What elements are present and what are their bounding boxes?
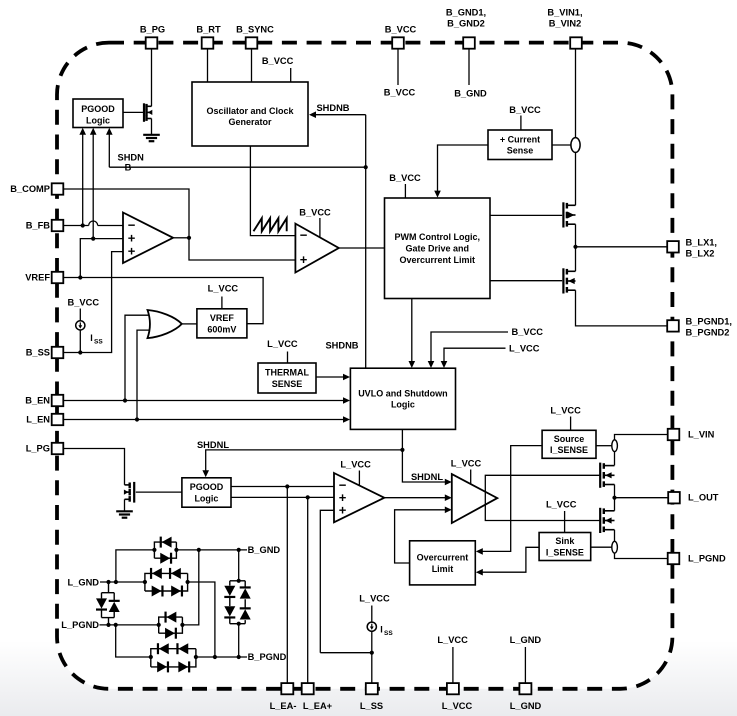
wire LDO error amp output to driver bbox=[384, 494, 452, 501]
wire L_GND net bbox=[100, 581, 145, 583]
ground (under Q1) bbox=[143, 119, 160, 142]
wire PGOOD to Q1 gate bbox=[123, 111, 143, 113]
svg-text:600mV: 600mV bbox=[207, 324, 236, 334]
block THERMAL SENSE bbox=[258, 363, 316, 393]
wire VREF sense into PGOOD bbox=[90, 128, 97, 241]
node pair D4 right bbox=[180, 623, 184, 627]
pin B_RT bbox=[196, 25, 221, 49]
svg-text:B_LX1,: B_LX1, bbox=[686, 237, 718, 247]
wire overcurrent to driver input bbox=[395, 507, 452, 564]
label L_VCC (sink sense supply) bbox=[546, 500, 577, 533]
label L_VCC (VREF supply) bbox=[208, 284, 239, 309]
node B_LX bbox=[573, 245, 577, 249]
wire Q6 source to sink ellipse bbox=[614, 530, 616, 542]
node pair D2 right bbox=[186, 580, 190, 584]
block Source I_SENSE bbox=[542, 430, 596, 458]
node B_PGND / pair D5 branch bbox=[237, 655, 241, 659]
current source ISS (buck) bbox=[76, 321, 85, 330]
label L_GND bbox=[67, 577, 99, 587]
block UVLO and Shutdown Logic bbox=[350, 368, 455, 429]
node L_GND / pair D3 branch bbox=[106, 580, 110, 584]
node pair D2 left bbox=[143, 580, 147, 584]
svg-text:−: − bbox=[300, 228, 308, 243]
svg-text:B_VCC: B_VCC bbox=[512, 327, 544, 337]
pin L_EN bbox=[26, 414, 63, 425]
transistor Q2 (buck high-side NMOS) bbox=[563, 202, 575, 227]
label L_VCC (thermal sense supply) bbox=[267, 339, 298, 363]
svg-text:L_PGND: L_PGND bbox=[61, 620, 99, 630]
pin B_SS bbox=[26, 347, 64, 358]
pin B_COMP bbox=[10, 183, 63, 194]
pin B_PGND1 B_PGND2 bbox=[667, 316, 732, 337]
wire SHDNB vertical to UVLO bbox=[365, 115, 367, 369]
wire B_EN to UVLO bbox=[63, 397, 350, 404]
svg-text:L_VCC: L_VCC bbox=[340, 460, 371, 470]
wire B_SS to error amp soft-start input bbox=[63, 252, 123, 355]
wire to L_PGND pin bbox=[615, 553, 668, 558]
node pair D1 left bbox=[152, 548, 156, 552]
label L_VCC (above ISS LDO) bbox=[359, 594, 390, 604]
wire OR gate to VREF block bbox=[182, 323, 197, 325]
wire VREF to error amp + input bbox=[80, 239, 123, 278]
svg-text:I_SENSE: I_SENSE bbox=[550, 445, 588, 455]
block PWM Control Logic Gate Drive and Overcurrent Limit bbox=[385, 198, 491, 299]
wire Q3 drain to B_LX node bbox=[575, 247, 577, 271]
block PGOOD Logic (LDO) bbox=[182, 478, 231, 507]
wire VREF to VREF 600mV output bbox=[63, 275, 263, 323]
wire PWM to UVLO block bbox=[409, 299, 416, 369]
svg-text:B_VIN2: B_VIN2 bbox=[549, 19, 582, 29]
wire current sense to ellipse bbox=[552, 144, 571, 146]
svg-text:+ Current: + Current bbox=[500, 134, 540, 144]
svg-text:B_GND: B_GND bbox=[248, 545, 281, 555]
svg-text:B_VCC: B_VCC bbox=[262, 56, 294, 66]
svg-text:B_VCC: B_VCC bbox=[299, 207, 331, 217]
svg-text:L_VCC: L_VCC bbox=[550, 405, 581, 415]
svg-text:B_COMP: B_COMP bbox=[10, 184, 50, 194]
pin L_GND (bottom) bbox=[510, 683, 542, 711]
svg-text:Sink: Sink bbox=[555, 536, 575, 546]
wire driver to Q5 gate bbox=[485, 475, 600, 520]
svg-text:B_VCC: B_VCC bbox=[384, 88, 416, 98]
label B_PGND bbox=[248, 652, 287, 662]
block Sink I_SENSE bbox=[539, 533, 591, 561]
svg-text:L_VIN: L_VIN bbox=[688, 430, 715, 440]
svg-text:SHDNB: SHDNB bbox=[325, 341, 358, 351]
svg-text:Source: Source bbox=[554, 434, 585, 444]
IC boundary (dashed package outline) bbox=[57, 43, 672, 689]
pin B_FB bbox=[26, 220, 64, 231]
wire B_VIN rail below ellipse bbox=[575, 152, 577, 205]
svg-text:B_PGND: B_PGND bbox=[248, 652, 287, 662]
wire Q3 source to B_PGND pin bbox=[576, 290, 668, 326]
pin L_VCC (bottom) bbox=[442, 683, 473, 711]
wire SHDN B into PGOOD bbox=[106, 128, 113, 167]
label B_VCC (ISS buck) bbox=[68, 297, 100, 307]
wire L_PGND net bbox=[100, 624, 159, 626]
wire L_PG to Q4 drain bbox=[63, 449, 124, 485]
svg-text:L_EN: L_EN bbox=[26, 415, 50, 425]
svg-text:L_GND: L_GND bbox=[510, 701, 542, 711]
node SHDNB junction bbox=[364, 165, 368, 169]
wire to B_LX pin bbox=[576, 246, 668, 248]
svg-text:Generator: Generator bbox=[228, 117, 272, 127]
wire LDO soft-start input bbox=[320, 510, 334, 652]
label L_VCC (driver supply) bbox=[451, 458, 482, 484]
svg-text:B_PGND2: B_PGND2 bbox=[686, 327, 730, 337]
transistor Q4 (L_PG pull-down NMOS) bbox=[124, 482, 134, 503]
wire B_FB to error amp inverting input bbox=[63, 221, 123, 226]
pin B_EN bbox=[25, 395, 63, 406]
svg-text:Overcurrent Limit: Overcurrent Limit bbox=[399, 255, 475, 265]
svg-text:B_GND: B_GND bbox=[454, 89, 487, 99]
pin VREF bbox=[25, 272, 63, 283]
current source ISS (LDO) bbox=[367, 622, 376, 631]
svg-text:B_VCC: B_VCC bbox=[389, 173, 421, 183]
label B_VCC (current sense supply) bbox=[509, 105, 541, 130]
wire L_EA+ sense bbox=[307, 497, 309, 683]
label SHDNL (at PGOOD LDO) bbox=[197, 440, 229, 450]
label B_GND bbox=[248, 545, 281, 555]
op-amp error amplifier (LDO) bbox=[334, 473, 384, 522]
block PGOOD Logic (buck) bbox=[73, 99, 123, 128]
svg-text:L_VCC: L_VCC bbox=[546, 500, 577, 510]
wire B_PGND net bbox=[196, 656, 247, 658]
svg-text:L_EA-: L_EA- bbox=[270, 701, 297, 711]
diode pair D4 (anti-parallel, L_PGND to B_GND) bbox=[159, 612, 183, 639]
node pair D5 bottom bbox=[237, 622, 241, 626]
pin L_VIN bbox=[668, 429, 715, 440]
wire B_RT to oscillator bbox=[207, 49, 209, 82]
svg-text:B_EN: B_EN bbox=[25, 396, 50, 406]
svg-text:SHDN: SHDN bbox=[118, 153, 145, 163]
svg-text:L_VCC: L_VCC bbox=[437, 635, 468, 645]
wire B_VCC into UVLO bbox=[428, 332, 508, 368]
transistor Q5 (LDO source PMOS) bbox=[600, 463, 614, 488]
svg-text:B_GND1,: B_GND1, bbox=[446, 8, 486, 18]
node pair D1 right bbox=[174, 548, 178, 552]
wire oscillator output to PWM comparator bbox=[250, 146, 295, 236]
node L_GND / pair D1 branch bbox=[114, 580, 118, 584]
op-amp error amplifier (buck) bbox=[123, 213, 173, 264]
node error amp output / B_COMP bbox=[187, 236, 191, 240]
pin L_PG bbox=[26, 443, 64, 454]
node pair D4 left bbox=[157, 623, 161, 627]
label SHDNB (into oscillator) bbox=[316, 103, 349, 113]
svg-text:I: I bbox=[90, 333, 93, 343]
node pair D6 right bbox=[194, 655, 198, 659]
wire PGOOD to LDO error amp inverting input bbox=[231, 484, 334, 488]
transistor Q3 (buck low-side NMOS) bbox=[563, 268, 575, 293]
node L_PGND / pair D6 branch bbox=[114, 623, 118, 627]
OR gate (enable logic) bbox=[148, 310, 182, 338]
diode pair D3 (anti-parallel, L_GND to L_PGND) bbox=[96, 582, 120, 625]
label SHDNL (at driver) bbox=[411, 472, 443, 482]
svg-text:B_FB: B_FB bbox=[26, 221, 51, 231]
wire B_EN to OR gate bbox=[125, 315, 150, 400]
svg-text:PGOOD: PGOOD bbox=[81, 104, 115, 114]
wire pair D2 to B_PGND net bbox=[188, 582, 215, 657]
svg-text:L_VCC: L_VCC bbox=[451, 458, 482, 468]
wire Sink I_SENSE to overcurrent limit bbox=[476, 547, 539, 575]
node L_OUT bbox=[612, 496, 616, 500]
ground (under Q4) bbox=[116, 511, 133, 517]
wire L_VCC pin stub bbox=[437, 635, 468, 683]
wire error amp output bbox=[173, 237, 189, 239]
svg-text:L_PG: L_PG bbox=[26, 444, 50, 454]
svg-text:L_VCC: L_VCC bbox=[267, 339, 298, 349]
wire Q4 gate to PGOOD (LDO) bbox=[136, 491, 182, 493]
op-amp PWM comparator bbox=[295, 224, 338, 273]
pin B_VIN1 B_VIN2 bbox=[547, 8, 582, 49]
wire L_EN to OR gate bbox=[137, 330, 149, 419]
svg-text:I: I bbox=[380, 625, 383, 635]
svg-text:Logic: Logic bbox=[86, 115, 110, 125]
svg-text:L_EA+: L_EA+ bbox=[303, 701, 333, 711]
label L_PGND bbox=[61, 620, 99, 630]
block Overcurrent Limit bbox=[410, 541, 476, 585]
svg-text:L_VCC: L_VCC bbox=[359, 594, 390, 604]
wire Q2 source to B_LX node bbox=[575, 224, 577, 247]
wire pair D1 to L_GND net bbox=[116, 550, 154, 582]
wire L_VCC to ISS (LDO) bbox=[371, 606, 373, 623]
wire Q6 drain to L_OUT node bbox=[614, 498, 616, 511]
node B_GND / pair D5 branch bbox=[237, 548, 241, 552]
label B_VCC (PWM supply) bbox=[389, 173, 421, 198]
wire B_PG to Q1 drain bbox=[151, 49, 153, 107]
wire L_EN to UVLO bbox=[63, 416, 350, 423]
pin L_EA- bbox=[270, 683, 297, 711]
wire B_GND pin stub bbox=[454, 49, 487, 99]
diode pair D2 (series anti-parallel, L_GND to B_PGND) bbox=[145, 568, 188, 597]
wire B_VCC to ISS source bbox=[79, 309, 81, 321]
transistor Q1 (B_PG pull-down NMOS) bbox=[144, 103, 152, 122]
node pair D5 top bbox=[237, 579, 241, 583]
svg-text:L_VCC: L_VCC bbox=[208, 284, 239, 294]
svg-text:Logic: Logic bbox=[391, 400, 415, 410]
current sense element (sink, ellipse) bbox=[612, 541, 618, 553]
svg-text:L_PGND: L_PGND bbox=[688, 554, 726, 564]
block Oscillator and Clock Generator bbox=[192, 82, 308, 146]
svg-text:B_PG: B_PG bbox=[140, 25, 165, 35]
svg-text:SS: SS bbox=[94, 339, 103, 346]
svg-text:I_SENSE: I_SENSE bbox=[546, 547, 584, 557]
wire PGOOD to LDO error amp + input bbox=[231, 495, 334, 499]
svg-text:B_GND2: B_GND2 bbox=[447, 19, 485, 29]
pin L_PGND bbox=[668, 553, 726, 564]
block + Current Sense bbox=[488, 130, 552, 160]
label B_VCC (UVLO input) bbox=[512, 327, 544, 337]
svg-text:B_SS: B_SS bbox=[26, 348, 50, 358]
wire pair D4 to B_GND net bbox=[182, 550, 198, 625]
diode pair D5 (series anti-parallel, B_GND to B_PGND) bbox=[224, 550, 250, 657]
label L_VCC (UVLO input) bbox=[509, 343, 540, 353]
svg-text:B_LX2: B_LX2 bbox=[686, 248, 715, 258]
wire Source I_SENSE to overcurrent limit bbox=[476, 446, 542, 555]
svg-text:UVLO and Shutdown: UVLO and Shutdown bbox=[358, 388, 448, 398]
op-amp driver (LDO) bbox=[452, 474, 498, 523]
wire SHDNB into oscillator bbox=[309, 111, 366, 118]
svg-text:SHDNL: SHDNL bbox=[411, 472, 443, 482]
svg-text:B_SYNC: B_SYNC bbox=[236, 25, 274, 35]
pin L_OUT bbox=[668, 492, 719, 503]
wire SHDNL to PGOOD (LDO) bbox=[202, 450, 402, 477]
label SHDNB (at UVLO) bbox=[325, 341, 358, 351]
wire L_VCC into UVLO bbox=[441, 348, 506, 368]
svg-text:SHDNB: SHDNB bbox=[316, 103, 349, 113]
svg-text:SHDNL: SHDNL bbox=[197, 440, 229, 450]
wire B_FB sense into PGOOD bbox=[79, 128, 86, 228]
svg-text:+: + bbox=[128, 244, 136, 259]
wire B_GND net bbox=[176, 549, 247, 551]
transistor Q6 (LDO sink NMOS) bbox=[600, 508, 614, 533]
label B_VCC (comparator supply) bbox=[299, 207, 331, 237]
wire PWM to Q2 gate bbox=[490, 214, 562, 216]
svg-text:B_VIN1,: B_VIN1, bbox=[547, 8, 582, 18]
svg-text:Limit: Limit bbox=[432, 564, 454, 574]
svg-text:Overcurrent: Overcurrent bbox=[417, 552, 469, 562]
wire comparator output to PWM block bbox=[339, 247, 385, 249]
current sense element (source, ellipse) bbox=[612, 440, 618, 452]
node B_GND / pair D2 branch bbox=[197, 548, 201, 552]
svg-text:THERMAL: THERMAL bbox=[265, 368, 309, 378]
pin L_EA+ bbox=[302, 683, 333, 711]
sawtooth waveform symbol bbox=[254, 218, 287, 231]
svg-text:VREF: VREF bbox=[210, 313, 235, 323]
node L_PGND / pair D3 branch bbox=[106, 623, 110, 627]
svg-text:PWM Control Logic,: PWM Control Logic, bbox=[395, 232, 481, 242]
pin L_SS bbox=[360, 683, 383, 711]
wire to L_OUT pin bbox=[615, 497, 669, 499]
label L_VCC (source sense supply) bbox=[550, 405, 581, 430]
svg-text:L_SS: L_SS bbox=[360, 701, 383, 711]
wire Q4 source to ground bbox=[124, 499, 126, 511]
wire L_EA- sense bbox=[286, 487, 288, 684]
diode pair D1 (anti-parallel, to B_GND) bbox=[154, 537, 176, 564]
wire Q5 source to L_OUT node bbox=[614, 485, 616, 498]
wire B_VIN rail down to current-sense bbox=[575, 49, 577, 138]
wire PWM to Q3 gate bbox=[490, 280, 562, 282]
svg-text:Oscillator and Clock: Oscillator and Clock bbox=[206, 106, 294, 116]
pin B_SYNC bbox=[236, 25, 274, 49]
svg-text:SENSE: SENSE bbox=[272, 379, 303, 389]
wire Source I_SENSE to ellipse bbox=[596, 445, 612, 447]
pin B_VCC (top) bbox=[385, 25, 417, 49]
label SHDN B bbox=[118, 153, 145, 173]
pin B_GND1 B_GND2 bbox=[446, 8, 486, 49]
block VREF 600mV bbox=[197, 309, 247, 338]
svg-text:L_OUT: L_OUT bbox=[688, 493, 719, 503]
wire B_VCC pin stub bbox=[384, 49, 416, 98]
svg-text:L_VCC: L_VCC bbox=[442, 701, 473, 711]
wire B_SYNC to oscillator bbox=[251, 49, 253, 82]
label ISS (LDO) bbox=[380, 625, 393, 638]
svg-text:Gate Drive and: Gate Drive and bbox=[405, 243, 469, 253]
svg-text:+: + bbox=[300, 252, 308, 267]
svg-text:B_RT: B_RT bbox=[196, 25, 221, 35]
label ISS (buck) bbox=[90, 333, 103, 346]
label B_VCC (oscillator supply) bbox=[262, 56, 294, 82]
wire ISS to L_SS pin bbox=[371, 631, 373, 683]
wire Sink I_SENSE to ellipse bbox=[591, 546, 612, 548]
wire L_VIN to Q5 drain bbox=[615, 435, 668, 466]
svg-text:B_VCC: B_VCC bbox=[509, 105, 541, 115]
node L_SS junction bbox=[370, 651, 374, 655]
wire B_COMP to error amp output node bbox=[63, 189, 295, 260]
wire SHDN B net bbox=[109, 166, 365, 168]
pin B_PG bbox=[140, 25, 165, 49]
svg-text:L_VCC: L_VCC bbox=[509, 343, 540, 353]
svg-text:PGOOD: PGOOD bbox=[190, 482, 224, 492]
wire UVLO to SHDNL net bbox=[402, 429, 451, 485]
svg-text:SS: SS bbox=[384, 630, 393, 637]
node B_PGND / pair D2 branch bbox=[213, 655, 217, 659]
svg-text:L_GND: L_GND bbox=[510, 635, 542, 645]
wire L_SS to LDO soft-start bbox=[320, 652, 372, 654]
pin B_LX1 B_LX2 bbox=[667, 237, 717, 258]
svg-text:+: + bbox=[339, 502, 347, 517]
svg-text:VREF: VREF bbox=[25, 273, 50, 283]
wire THERMAL SENSE to UVLO bbox=[316, 374, 350, 381]
node SHDNL junction bbox=[400, 448, 404, 452]
svg-text:Sense: Sense bbox=[507, 146, 534, 156]
wire L_PGND to pair D6 bbox=[116, 625, 151, 657]
svg-text:L_GND: L_GND bbox=[67, 577, 99, 587]
wire L_GND pin stub bbox=[510, 635, 542, 683]
svg-text:B_VCC: B_VCC bbox=[68, 297, 100, 307]
label L_VCC (LDO error amp supply) bbox=[340, 460, 371, 486]
svg-text:B_PGND1,: B_PGND1, bbox=[686, 316, 733, 326]
wire ISS to B_SS bbox=[79, 330, 81, 353]
current sense element (buck, ellipse) bbox=[571, 138, 580, 153]
wire current sense to PWM block bbox=[434, 145, 488, 198]
diode pair D6 (series anti-parallel, L_PGND to B_PGND) bbox=[151, 643, 196, 672]
svg-text:B_VCC: B_VCC bbox=[385, 25, 417, 35]
node pair D6 left bbox=[149, 655, 153, 659]
svg-text:Logic: Logic bbox=[194, 493, 218, 503]
